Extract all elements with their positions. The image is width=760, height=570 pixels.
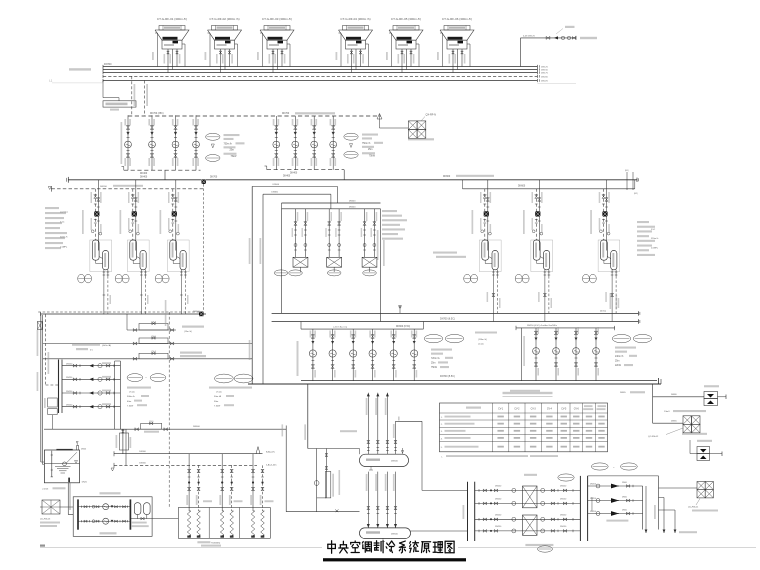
svg-text:7.5kW: 7.5kW bbox=[127, 405, 134, 407]
svg-text:DN600 (6.5C): DN600 (6.5C) bbox=[396, 326, 410, 328]
svg-text:DN700: DN700 bbox=[210, 177, 218, 179]
svg-text:(+5mm Ax+Oa): (+5mm Ax+Oa) bbox=[333, 325, 347, 328]
water level line bbox=[44, 462, 79, 464]
rooftop pump spec text bbox=[615, 347, 637, 368]
cooling tower control box bbox=[103, 81, 136, 111]
air vent group note bbox=[620, 391, 645, 394]
left manifold bars bbox=[59, 360, 63, 414]
svg-text:DN300: DN300 bbox=[139, 463, 146, 465]
evaporator vessel bbox=[180, 251, 186, 270]
lower AHU supply line and CV-1 bypass bbox=[44, 415, 286, 433]
HX circuit run bbox=[475, 501, 581, 505]
svg-text:DN250: DN250 bbox=[560, 486, 567, 488]
grid line L1 bbox=[52, 82, 103, 84]
chilled water return trunk bbox=[248, 375, 661, 392]
plate HX 2 bbox=[523, 515, 538, 535]
HX tag ovals bbox=[274, 270, 288, 276]
thermometer bbox=[600, 230, 603, 233]
pump spec text 1 bbox=[224, 134, 240, 136]
coil riser bbox=[229, 465, 234, 537]
coil bbox=[197, 511, 201, 536]
AHU supply circuits right bbox=[588, 476, 659, 530]
svg-text:DN250: DN250 bbox=[590, 511, 596, 513]
plate HX 1 bbox=[523, 486, 538, 508]
svg-text:CV-6: CV-6 bbox=[574, 408, 580, 410]
evaporator vessel bbox=[140, 251, 146, 270]
rooftop pump branch bbox=[573, 327, 580, 381]
collector riser bbox=[119, 361, 121, 429]
left riser into tank bbox=[41, 461, 45, 463]
gauge on riser bbox=[314, 481, 319, 486]
svg-text:DN25: DN25 bbox=[81, 449, 87, 451]
svg-text:DN400: DN400 bbox=[140, 173, 148, 175]
secondary pump tag ovals bbox=[424, 334, 442, 342]
svg-text:DN250: DN250 bbox=[66, 391, 73, 393]
overflow pipe in tank bbox=[51, 451, 53, 477]
svg-text:CV-2: CV-2 bbox=[514, 408, 520, 410]
air vent note bbox=[340, 430, 357, 432]
chiller unit bbox=[82, 180, 112, 276]
svg-text:22kW: 22kW bbox=[615, 365, 622, 367]
bypass CV-6 bbox=[43, 336, 252, 345]
supply riser from return trunk bbox=[307, 384, 309, 449]
butterfly valve (black) bbox=[535, 211, 540, 216]
svg-text:CV-3: CV-3 bbox=[531, 408, 537, 410]
secondary pump rotated note bbox=[297, 341, 299, 376]
upper note Fa/F 2-way valve bbox=[72, 344, 111, 352]
svg-text:QC-RS-01: QC-RS-01 bbox=[688, 507, 699, 509]
wire pump group1 outlet bbox=[164, 170, 166, 180]
chilled water supply trunk DN700 bbox=[272, 293, 640, 324]
building return riser bbox=[375, 472, 379, 528]
tank drain bbox=[68, 478, 70, 483]
svg-text:DN300: DN300 bbox=[139, 451, 146, 453]
riser from trunk valve bbox=[203, 184, 205, 312]
tank to pump room pipe bbox=[67, 483, 69, 515]
left chilled header dashed bbox=[51, 188, 205, 190]
chilled water outlet pipes bbox=[544, 270, 546, 276]
svg-text:75kW: 75kW bbox=[231, 156, 238, 158]
svg-text:DN175: DN175 bbox=[541, 73, 549, 75]
svg-text:DN200: DN200 bbox=[541, 76, 549, 78]
rooftop pump branch bbox=[553, 327, 560, 381]
drawing frame line bbox=[40, 547, 322, 549]
humidifier bypass legs bbox=[316, 449, 318, 512]
svg-text:DN500: DN500 bbox=[391, 533, 399, 535]
svg-text:DN500: DN500 bbox=[349, 200, 356, 202]
corner grid tick bbox=[40, 545, 45, 547]
cooling tower CT-G-RF-01 bbox=[152, 17, 189, 73]
coil riser bbox=[186, 454, 191, 538]
svg-text:DN65: DN65 bbox=[671, 421, 677, 423]
wire chiller to trunk pair bbox=[496, 276, 498, 313]
svg-text:QC-RS-02: QC-RS-02 bbox=[648, 436, 659, 438]
svg-text:25m: 25m bbox=[230, 150, 235, 152]
svg-text:DN80: DN80 bbox=[671, 394, 677, 396]
plate heat exchanger box bbox=[293, 257, 308, 267]
HX station feed lines bbox=[410, 490, 467, 531]
coil bbox=[220, 511, 224, 536]
svg-text:25m: 25m bbox=[431, 363, 436, 365]
chilled water outlet pipes bbox=[492, 270, 494, 276]
bypass CV-4 rooftop AHU line bbox=[43, 351, 252, 360]
secondary pump branch bbox=[350, 329, 357, 381]
riser to expansion tank bbox=[652, 384, 654, 423]
stub from riser pair lower bbox=[263, 193, 331, 195]
district risers to AHUs bbox=[645, 486, 697, 533]
svg-text:CV-5: CV-5 bbox=[561, 408, 567, 410]
coil note text bbox=[197, 541, 210, 543]
secondary pump branch bbox=[390, 329, 397, 381]
chiller tag ovals bbox=[155, 274, 162, 283]
title: central AC refrigeration system schematic (drawn glyphs) bbox=[328, 541, 454, 553]
svg-text:DN25: DN25 bbox=[82, 481, 88, 483]
svg-text:DN250: DN250 bbox=[495, 499, 502, 501]
thermometer bbox=[129, 230, 132, 233]
svg-text:50m /A: 50m /A bbox=[214, 395, 221, 398]
svg-text:5.5C: 5.5C bbox=[651, 229, 656, 231]
cooling tower CT-G-RF-05 bbox=[386, 17, 423, 73]
chiller unit bbox=[160, 180, 190, 276]
svg-text:DN700 (5.5C): DN700 (5.5C) bbox=[440, 375, 455, 378]
svg-text:DN225: DN225 bbox=[541, 81, 549, 83]
supply manifold bbox=[360, 454, 409, 466]
rotated note left of chiller bbox=[472, 210, 474, 234]
svg-text:QC-RS-03: QC-RS-03 bbox=[40, 519, 51, 521]
thermometer bbox=[91, 230, 94, 233]
svg-text:75kW: 75kW bbox=[431, 367, 438, 369]
svg-text:DN50: DN50 bbox=[622, 509, 627, 511]
left dashed riser to manifold bbox=[46, 314, 59, 385]
suction header bar bbox=[77, 499, 79, 529]
makeup water note bbox=[69, 68, 91, 70]
svg-text:DN500: DN500 bbox=[349, 207, 356, 209]
rooftop loop header DN250 bbox=[516, 324, 615, 380]
svg-text:DN250: DN250 bbox=[66, 364, 73, 366]
svg-text:CT-G-RF-05 (300m /h): CT-G-RF-05 (300m /h) bbox=[391, 17, 421, 21]
coil riser bbox=[250, 454, 255, 538]
return feed riser bbox=[285, 426, 287, 512]
water symbol bbox=[55, 465, 71, 467]
evaporator vessel bbox=[103, 251, 109, 270]
rotated note left of chiller bbox=[590, 210, 592, 234]
condenser water return header DN700 bbox=[128, 115, 381, 117]
svg-text:DN250: DN250 bbox=[495, 514, 502, 516]
svg-text:DN250 (6.5C)+5m Aw+2ax/2d5x: DN250 (6.5C)+5m Aw+2ax/2d5x bbox=[527, 324, 558, 327]
dosing box QC-RS-03 bbox=[40, 500, 73, 527]
svg-text:DN150: DN150 bbox=[541, 70, 549, 72]
CV-2 vertical bypass pair bbox=[116, 429, 132, 465]
svg-text:L1: L1 bbox=[49, 79, 53, 83]
svg-text:DN600: DN600 bbox=[443, 176, 451, 178]
pressurisation pump unit box bbox=[73, 492, 152, 536]
dosing unit QC-RS-01 bbox=[659, 482, 719, 512]
condenser vessel bbox=[601, 240, 608, 260]
svg-text:CV-4: CV-4 bbox=[547, 408, 553, 410]
pump branch CWP bbox=[292, 116, 299, 170]
mid chiller note text bbox=[382, 210, 407, 240]
HX bottom note bbox=[525, 544, 553, 546]
pump tag ovals bbox=[344, 133, 358, 140]
two-way valve tag ovals bbox=[127, 374, 143, 382]
vessel connector bbox=[99, 257, 102, 259]
coil riser bbox=[219, 454, 224, 538]
grid line right bbox=[537, 82, 576, 84]
svg-text:DN400: DN400 bbox=[290, 173, 298, 175]
svg-text:CT-G-RF-02 (300m /h): CT-G-RF-02 (300m /h) bbox=[209, 17, 239, 21]
pump spec text bbox=[362, 134, 378, 136]
svg-text:DN400: DN400 bbox=[283, 176, 291, 178]
left chilled water line bbox=[40, 311, 206, 316]
pump branch CWP-1x bbox=[192, 115, 199, 170]
bypass CV-3 to AC cold tank bbox=[127, 314, 204, 333]
rotated note left of group1 bbox=[121, 122, 123, 164]
wire chiller to chilled header bbox=[184, 276, 186, 314]
VFD text block bbox=[209, 387, 252, 408]
svg-text:CT-G-RF-06 (300m /h): CT-G-RF-06 (300m /h) bbox=[442, 17, 472, 21]
trunk end B1 B2 marks bbox=[626, 172, 628, 190]
secondary pump branch bbox=[411, 329, 418, 381]
HX circuit run bbox=[475, 488, 581, 492]
svg-text:(B2): (B2) bbox=[634, 193, 638, 195]
svg-text:750kW(X): 750kW(X) bbox=[211, 542, 221, 544]
left chiller spec text bbox=[45, 207, 68, 249]
rotated note left of chiller bbox=[82, 210, 84, 234]
chiller capacity note bbox=[433, 252, 457, 254]
pump branch CWP bbox=[311, 116, 318, 170]
butterfly valve (black) bbox=[602, 211, 607, 216]
building return riser bbox=[393, 472, 397, 528]
cooling water pump group 1 bbox=[122, 115, 245, 175]
manifold drain bbox=[370, 467, 372, 471]
operation mode table title bbox=[503, 392, 553, 394]
building supply riser bbox=[385, 393, 389, 455]
vessel connector bbox=[489, 257, 492, 259]
riser 4 elbow to HX feed bbox=[396, 417, 423, 491]
svg-text:750m /h: 750m /h bbox=[362, 143, 371, 145]
svg-text:25m: 25m bbox=[368, 149, 373, 151]
chiller unit bbox=[472, 180, 502, 276]
svg-text:DN65: DN65 bbox=[620, 392, 626, 394]
vent arrow bbox=[377, 114, 382, 120]
manifold entry tick bbox=[402, 448, 404, 454]
svg-text:7.5kW: 7.5kW bbox=[214, 405, 221, 407]
svg-text:DN600: DN600 bbox=[193, 426, 201, 428]
condenser vessel bbox=[482, 240, 489, 260]
svg-text:DN200: DN200 bbox=[100, 186, 108, 188]
chiller unit bbox=[590, 180, 620, 276]
cooling water pump group 2 bbox=[265, 116, 384, 175]
make-up pump train bbox=[78, 518, 130, 524]
svg-text:500m /h: 500m /h bbox=[127, 396, 136, 398]
vessel connector bbox=[540, 257, 543, 259]
coil riser bbox=[196, 465, 201, 537]
cooling tower CT-G-RF-04 bbox=[336, 17, 373, 73]
float valve inlet bbox=[77, 446, 79, 451]
svg-text:DN50: DN50 bbox=[622, 496, 627, 498]
svg-text:(B1): (B1) bbox=[625, 170, 629, 172]
wire chiller to trunk pair bbox=[548, 276, 550, 313]
vessel connector bbox=[607, 257, 610, 259]
svg-text:DN700 (35C): DN700 (35C) bbox=[150, 113, 164, 115]
closed loop dosing branch QC-RS-02 bbox=[648, 416, 707, 438]
building supply riser bbox=[393, 421, 397, 454]
AHU branch tag ovals bbox=[591, 463, 608, 470]
condenser vessel bbox=[92, 240, 99, 260]
svg-text:1.0MPa: 1.0MPa bbox=[60, 246, 68, 248]
pump branch CWP-1x bbox=[124, 115, 131, 170]
secondary pump branch bbox=[369, 329, 376, 381]
chilled water outlet pipes bbox=[180, 270, 182, 276]
svg-text:CT-G-RF-01 (300m /h): CT-G-RF-01 (300m /h) bbox=[157, 17, 187, 21]
coil riser bbox=[260, 465, 265, 537]
condenser vessel bbox=[170, 240, 177, 260]
svg-text:5.5C: 5.5C bbox=[60, 221, 65, 223]
svg-text:DN250: DN250 bbox=[495, 526, 502, 528]
svg-text:DN250: DN250 bbox=[590, 498, 596, 500]
pump tag ovals 1 bbox=[206, 133, 220, 140]
pump branch CWP-1x bbox=[172, 115, 179, 170]
rotated note left of chiller bbox=[120, 210, 122, 234]
secondary pump branch bbox=[309, 329, 316, 381]
svg-text:QX-RF-N: QX-RF-N bbox=[426, 114, 437, 117]
vessel connector bbox=[177, 257, 180, 259]
HX bank right riser bbox=[380, 209, 382, 322]
vessel connector bbox=[137, 257, 140, 259]
secondary pump branch bbox=[329, 329, 336, 381]
chiller unit bbox=[120, 180, 150, 276]
svg-text:520m /h: 520m /h bbox=[651, 238, 658, 240]
svg-text:DN125: DN125 bbox=[541, 67, 549, 69]
svg-text:DN150: DN150 bbox=[560, 499, 567, 501]
expansion tank branch bbox=[653, 385, 726, 413]
evaporative condenser unit boxes bbox=[178, 508, 270, 539]
HX right headers bbox=[579, 476, 581, 541]
svg-text:(110m /h): (110m /h) bbox=[478, 339, 487, 341]
balance drop bbox=[521, 328, 523, 381]
svg-text:30m: 30m bbox=[214, 401, 218, 403]
svg-text:CT-G-RF-03 (300m /h): CT-G-RF-03 (300m /h) bbox=[262, 17, 292, 21]
building return riser bbox=[385, 472, 389, 528]
svg-text:(1 a6): (1 a6) bbox=[478, 343, 484, 345]
cooling tower CT-G-RF-02 bbox=[205, 17, 242, 73]
pump branch CWP-1x bbox=[148, 115, 155, 170]
rotated note left of chiller bbox=[523, 210, 525, 234]
float arm and ball bbox=[66, 452, 77, 463]
HX bank left riser bbox=[281, 209, 283, 313]
secondary pump VFD tag ovals bbox=[215, 374, 234, 383]
building supply riser bbox=[375, 393, 379, 455]
svg-text:CT-G-RF-04 (300m /h): CT-G-RF-04 (300m /h) bbox=[340, 17, 370, 21]
cooling tower CT-G-RF-03 bbox=[257, 17, 294, 73]
coil bbox=[251, 511, 255, 536]
left riser pair bbox=[37, 315, 43, 465]
plate heat exchanger box bbox=[327, 257, 342, 267]
thermometer bbox=[532, 230, 535, 233]
wire chiller to chilled header bbox=[144, 276, 146, 314]
chiller tag ovals bbox=[115, 274, 122, 283]
svg-text:720m /A: 720m /A bbox=[431, 357, 440, 360]
riser to condenser water header bbox=[131, 76, 133, 116]
butterfly valve (black) bbox=[132, 211, 137, 216]
evaporator vessel bbox=[544, 251, 550, 270]
svg-text:DN600: DN600 bbox=[518, 186, 526, 188]
coil bbox=[261, 511, 265, 536]
feed riser into coil unit 1 bbox=[168, 312, 170, 508]
evaporator vessel bbox=[611, 251, 617, 270]
svg-text:(7 a6): (7 a6) bbox=[129, 392, 135, 394]
title underline bbox=[323, 558, 466, 561]
free cooling HX bank headers bbox=[282, 200, 381, 209]
svg-text:B-A/=22C: B-A/=22C bbox=[266, 450, 276, 453]
rooftop pump branch bbox=[533, 327, 540, 381]
plate HX module bbox=[292, 209, 309, 272]
svg-text:2.0m3: 2.0m3 bbox=[42, 488, 49, 490]
svg-text:(-12.5C): (-12.5C) bbox=[60, 211, 68, 213]
HX circuit run bbox=[475, 529, 581, 533]
cooling water bus pipes bbox=[103, 63, 549, 83]
svg-text:DN500: DN500 bbox=[391, 461, 399, 463]
thermometer bbox=[169, 230, 172, 233]
coil bbox=[187, 511, 191, 536]
supply/return lines to coil units bbox=[111, 447, 277, 471]
chiller unit bbox=[523, 180, 553, 276]
sub-station tag box bbox=[44, 398, 57, 415]
svg-text:(15m /h): (15m /h) bbox=[184, 331, 192, 333]
pump branch CWP bbox=[330, 116, 337, 170]
right chiller header bbox=[463, 188, 635, 190]
condenser vessel bbox=[130, 240, 137, 260]
riser pair to return trunk bbox=[251, 186, 253, 384]
svg-text:DN250: DN250 bbox=[66, 377, 73, 379]
secondary chilled pump group header bbox=[301, 322, 423, 330]
city water make-up line bbox=[521, 26, 598, 67]
building supply riser bbox=[366, 393, 370, 455]
svg-text:DN300: DN300 bbox=[271, 192, 278, 194]
wire chiller to chilled header bbox=[107, 276, 109, 314]
chiller tag ovals bbox=[515, 274, 522, 283]
chilled water outlet pipes bbox=[140, 270, 142, 276]
wire chiller to trunk pair bbox=[615, 276, 617, 313]
coil unit labels bbox=[203, 500, 212, 502]
butterfly valve (black) bbox=[172, 211, 177, 216]
svg-text:CV-1: CV-1 bbox=[498, 408, 504, 410]
vent on trunk bbox=[399, 306, 401, 314]
pressurisation make-up unit bbox=[690, 440, 722, 461]
svg-text:DN250: DN250 bbox=[495, 486, 502, 488]
chiller tag ovals bbox=[464, 274, 471, 283]
svg-text:750m /h: 750m /h bbox=[224, 143, 233, 145]
AHU circuit text block bbox=[127, 387, 151, 408]
svg-text:DN250: DN250 bbox=[590, 483, 596, 485]
diaphragm tanks bbox=[134, 503, 141, 515]
evaporator vessel bbox=[492, 251, 498, 270]
rotated note left of chiller bbox=[160, 210, 162, 234]
chiller tag ovals bbox=[78, 274, 85, 283]
pump branch CWP bbox=[273, 116, 280, 170]
valve on trunk bbox=[202, 180, 206, 184]
make-up water tank bbox=[41, 442, 88, 491]
balance valve note bbox=[475, 332, 497, 334]
manifold branch arm bbox=[62, 376, 120, 382]
HX tag oval bbox=[558, 474, 574, 481]
building return riser bbox=[366, 472, 370, 528]
wire pump outlet to main bbox=[343, 170, 345, 180]
svg-text:DN250: DN250 bbox=[66, 405, 73, 407]
manifold branch arm bbox=[62, 362, 120, 368]
svg-text:DN700: DN700 bbox=[104, 63, 112, 66]
svg-text:DN400: DN400 bbox=[140, 177, 148, 179]
